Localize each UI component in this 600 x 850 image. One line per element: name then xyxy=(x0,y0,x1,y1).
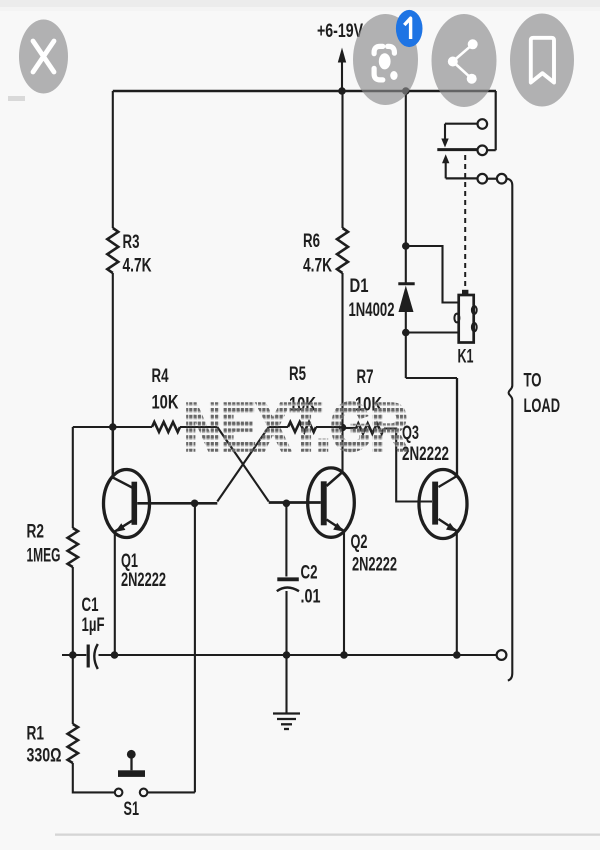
diode D1 1N4002 xyxy=(398,282,414,285)
load terminal open circle xyxy=(497,650,507,660)
relay armature arrow up xyxy=(442,154,449,163)
wire D1 branch from rail xyxy=(405,91,407,283)
wire R2 to bottom rail xyxy=(72,567,74,655)
wire relay actuator dashed link xyxy=(464,155,466,288)
wire common to supply rail xyxy=(487,91,496,150)
pushbutton S1 xyxy=(115,789,123,797)
wire R1 to S1 xyxy=(73,763,115,792)
node Q1 emitter to bottom rail xyxy=(111,651,119,659)
svg-text:R5: R5 xyxy=(289,364,306,385)
svg-text:C1: C1 xyxy=(82,595,99,616)
wire base-bias rail left (R2 top to R4) xyxy=(73,426,152,428)
svg-text:4.7K: 4.7K xyxy=(123,256,152,277)
svg-text:330Ω: 330Ω xyxy=(27,746,62,767)
svg-text:10K: 10K xyxy=(152,393,179,414)
capacitor C1 1uF xyxy=(87,645,90,668)
node supply junction at D1 branch xyxy=(402,87,410,95)
wire relay coil top lead xyxy=(406,246,459,303)
wire R5 left connection xyxy=(269,426,288,428)
svg-text:1µF: 1µF xyxy=(82,615,105,636)
relay coil K1 xyxy=(459,295,474,343)
ground symbol xyxy=(285,655,287,713)
badge 1 xyxy=(396,10,423,47)
svg-text:.01: .01 xyxy=(301,587,321,608)
wire Q2 base line xyxy=(269,501,321,504)
resistor R3 xyxy=(107,228,118,273)
svg-text:Q1: Q1 xyxy=(121,551,138,572)
resistor R4 xyxy=(152,422,180,432)
svg-text:2N2222: 2N2222 xyxy=(352,555,397,576)
node D1 bottom / relay junction xyxy=(402,329,410,337)
wire S1 to Q1 base xyxy=(147,503,195,792)
svg-text:2N2222: 2N2222 xyxy=(121,570,166,591)
wire R6 to Q2 collector node xyxy=(341,273,343,472)
relay common bar xyxy=(437,148,478,151)
node R5/R6/R7/Q2 collector junction xyxy=(339,424,347,432)
load line brace jog xyxy=(509,386,513,401)
svg-text:1N4002: 1N4002 xyxy=(349,300,395,321)
button close (X) xyxy=(19,20,68,94)
relay contact NC row xyxy=(445,123,477,125)
transistor Q3 2N2222 xyxy=(419,470,467,539)
wire bottom rail left stub xyxy=(62,654,86,656)
svg-text:R3: R3 xyxy=(123,232,140,253)
button share xyxy=(432,14,497,107)
svg-text:2N2222: 2N2222 xyxy=(402,444,449,465)
relay armature arrow down xyxy=(444,124,446,139)
wire D1 bottom to Q3 collector xyxy=(406,377,457,379)
resistor R7 xyxy=(356,424,384,434)
node C2/ground junction xyxy=(283,651,291,659)
node D1 top / relay junction xyxy=(402,242,410,250)
wire R3 to Q1 collector node xyxy=(112,273,114,427)
wire top supply rail xyxy=(113,90,496,92)
node supply junction at V+ arrow xyxy=(338,87,346,95)
svg-text:R2: R2 xyxy=(27,522,45,543)
wire NO contact to load line xyxy=(507,179,513,186)
wire Q1 base line xyxy=(137,502,217,505)
svg-text:TO: TO xyxy=(524,371,542,392)
wire R7 left connection xyxy=(343,427,357,429)
wire R7 to Q3 base xyxy=(384,429,432,502)
svg-text:NEXT.GR: NEXT.GR xyxy=(184,390,408,465)
scan edge line xyxy=(55,834,600,836)
relay contact NO row xyxy=(446,177,478,179)
wire left rail R2 branch xyxy=(72,427,74,528)
svg-text:R1: R1 xyxy=(27,724,45,745)
svg-text:Q2: Q2 xyxy=(351,532,368,553)
capacitor C2 .01 xyxy=(285,503,287,576)
svg-text:R6: R6 xyxy=(303,231,320,252)
button bookmark xyxy=(510,14,574,107)
resistor R5 xyxy=(288,422,316,432)
power +6-19V arrow xyxy=(341,62,343,91)
svg-text:R7: R7 xyxy=(357,367,374,388)
resistor R1 xyxy=(68,724,78,763)
svg-text:4.7K: 4.7K xyxy=(303,256,332,277)
node Q2 base / C2 junction xyxy=(283,500,291,508)
wire cross diagonal R4 to Q2 base xyxy=(217,427,268,502)
node Q3 emitter junction xyxy=(453,651,461,659)
svg-text:+6-19V: +6-19V xyxy=(317,21,363,42)
wire R6 branch xyxy=(341,91,343,228)
svg-text:C2: C2 xyxy=(301,563,318,584)
node R3/Q1 collector junction xyxy=(109,423,117,431)
svg-text:K1: K1 xyxy=(458,347,474,368)
wire R5 to R6 node xyxy=(316,426,343,428)
wire relay coil bottom lead xyxy=(406,331,459,333)
node Q1 base / S1 junction xyxy=(191,500,199,508)
svg-text:1MEG: 1MEG xyxy=(27,546,61,567)
resistor R2 xyxy=(68,528,78,567)
transistor Q1 2N2222 xyxy=(104,470,150,538)
button google lens xyxy=(353,14,418,105)
wire bottom rail xyxy=(99,654,497,656)
wire right load line xyxy=(511,186,513,386)
svg-text:LOAD: LOAD xyxy=(524,396,561,417)
resistor R6 xyxy=(337,228,348,273)
wire R4 to cross-over xyxy=(180,426,217,428)
svg-text:D1: D1 xyxy=(350,276,369,297)
node left rail / C1 junction xyxy=(69,651,77,659)
wire R1 branch xyxy=(72,655,74,724)
scan smudge xyxy=(8,96,25,101)
wire left rail R3 branch xyxy=(112,91,114,228)
transistor Q2 2N2222 xyxy=(308,468,355,537)
svg-text:R4: R4 xyxy=(152,366,169,387)
node Q2 emitter junction xyxy=(340,651,348,659)
svg-text:S1: S1 xyxy=(124,799,140,820)
wire cross diagonal R5 to Q1 base xyxy=(217,427,268,502)
